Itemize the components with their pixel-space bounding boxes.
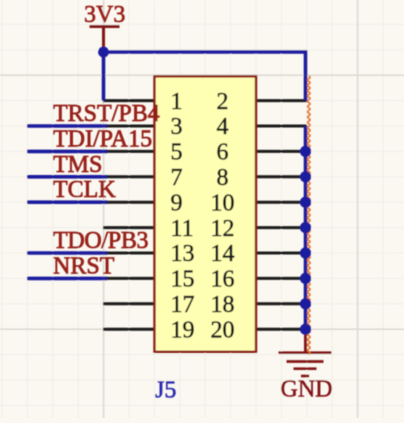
svg-text:12: 12 [211, 216, 235, 242]
svg-text:TMS: TMS [53, 152, 102, 178]
svg-text:1: 1 [171, 89, 183, 115]
svg-text:10: 10 [211, 190, 235, 216]
svg-text:3: 3 [171, 114, 183, 140]
svg-text:TDO/PB3: TDO/PB3 [53, 228, 149, 254]
svg-text:16: 16 [211, 267, 235, 293]
svg-text:GND: GND [281, 377, 333, 403]
svg-text:4: 4 [217, 114, 229, 140]
svg-text:17: 17 [171, 292, 195, 318]
svg-text:TDI/PA15: TDI/PA15 [53, 126, 152, 152]
svg-text:2: 2 [217, 89, 229, 115]
svg-text:18: 18 [211, 292, 235, 318]
svg-text:J5: J5 [155, 378, 176, 404]
svg-text:14: 14 [211, 241, 235, 267]
svg-text:TCLK: TCLK [53, 177, 116, 203]
svg-text:15: 15 [171, 267, 195, 293]
svg-text:19: 19 [171, 317, 195, 343]
svg-text:NRST: NRST [53, 253, 115, 279]
svg-text:7: 7 [171, 165, 183, 191]
svg-text:3V3: 3V3 [84, 2, 125, 28]
svg-text:9: 9 [171, 190, 183, 216]
svg-text:5: 5 [171, 140, 183, 166]
svg-text:11: 11 [171, 216, 194, 242]
svg-text:20: 20 [211, 317, 235, 343]
svg-text:13: 13 [171, 241, 195, 267]
svg-text:TRST/PB4: TRST/PB4 [53, 101, 160, 127]
svg-text:8: 8 [217, 165, 229, 191]
svg-text:6: 6 [217, 140, 229, 166]
